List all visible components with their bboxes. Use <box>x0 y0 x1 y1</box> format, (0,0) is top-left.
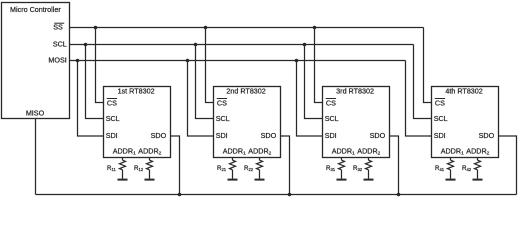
svg-text:SDI: SDI <box>325 131 337 140</box>
IC U2 2nd RT8302 box <box>214 87 281 158</box>
wire resistor R22 to ground <box>259 170 261 179</box>
svg-text:ADDR2: ADDR2 <box>357 147 380 156</box>
svg-text:SDO: SDO <box>151 131 167 140</box>
IC U1 1st RT8302 box <box>104 87 171 158</box>
svg-text:ADDR2: ADDR2 <box>138 147 161 156</box>
junction dot MOSI / SDI U2 <box>186 59 190 63</box>
junction dot SS / CS U1 <box>94 26 98 30</box>
junction dot SDO U3 / MISO bus <box>397 193 401 197</box>
IC U4 4th RT8302 box <box>432 87 499 158</box>
wire SCL bus <box>70 44 414 46</box>
wire SDO U2 to MISO bus <box>281 136 290 195</box>
wire resistor R31 to ground <box>341 170 343 179</box>
svg-text:SDO: SDO <box>370 131 386 140</box>
svg-text:SDO: SDO <box>479 131 495 140</box>
junction dot MOSI / SDI U1 <box>76 59 80 63</box>
svg-text:4th RT8302: 4th RT8302 <box>445 87 482 96</box>
svg-text:R21: R21 <box>217 165 227 172</box>
svg-text:CS: CS <box>107 98 117 107</box>
resistor R11 <box>120 160 126 170</box>
wire SS to CS U2 <box>206 28 214 103</box>
svg-text:MISO: MISO <box>26 109 45 118</box>
wire MOSI bus to SDI U3 <box>297 61 323 137</box>
IC U3 3rd RT8302 box <box>323 87 390 158</box>
wire ADDR2 U3 to resistor R32 <box>368 158 370 161</box>
wire SCL bus to SCL U3 <box>305 45 323 119</box>
junction dot SCL bus U3 <box>303 43 307 47</box>
svg-text:CS: CS <box>435 98 445 107</box>
svg-text:R12: R12 <box>134 165 144 172</box>
wire ADDR2 U2 to resistor R22 <box>259 158 261 161</box>
svg-text:CS: CS <box>326 98 336 107</box>
wire SCL bus to SCL U4 <box>414 45 432 119</box>
wire ADDR2 U4 to resistor R42 <box>477 158 479 161</box>
svg-text:R31: R31 <box>326 165 336 172</box>
wire SS bus <box>70 27 424 29</box>
svg-text:MOSI: MOSI <box>48 56 66 65</box>
svg-text:CS: CS <box>217 98 227 107</box>
junction dot SCL bus U1 <box>84 43 88 47</box>
svg-text:SCL: SCL <box>325 114 339 123</box>
svg-text:ADDR2: ADDR2 <box>466 147 489 156</box>
junction dot MOSI / SDI U3 <box>295 59 299 63</box>
wire resistor R12 to ground <box>149 170 151 179</box>
ground symbol below R21 <box>228 179 238 181</box>
svg-text:ADDR2: ADDR2 <box>248 147 271 156</box>
wire ADDR1 U2 to resistor R21 <box>232 158 234 161</box>
wire SS to CS U4 <box>424 28 432 103</box>
wire resistor R41 to ground <box>450 170 452 179</box>
resistor R21 <box>230 160 236 170</box>
wire SDO U1 to MISO bus <box>171 136 180 195</box>
resistor R31 <box>339 160 345 170</box>
ground symbol below R11 <box>118 179 128 181</box>
wire MOSI bus to SDI U2 <box>188 61 214 137</box>
svg-text:1st RT8302: 1st RT8302 <box>118 87 155 96</box>
wire resistor R21 to ground <box>232 170 234 179</box>
svg-text:SCL: SCL <box>434 114 448 123</box>
resistor R32 <box>366 160 372 170</box>
wire SS to CS U1 <box>96 28 104 103</box>
wire SDO U3 to MISO bus <box>390 136 399 195</box>
svg-text:Micro Controller: Micro Controller <box>10 5 61 14</box>
micro controller U0 box <box>2 3 70 119</box>
svg-text:R11: R11 <box>107 165 116 172</box>
wire ADDR1 U1 to resistor R11 <box>122 158 124 161</box>
svg-text:2nd RT8302: 2nd RT8302 <box>226 87 265 96</box>
wire MISO bottom bus <box>36 194 517 196</box>
resistor R42 <box>475 160 481 170</box>
junction dot SS / CS U2 <box>204 26 208 30</box>
svg-text:SDO: SDO <box>261 131 277 140</box>
svg-text:R42: R42 <box>462 165 472 172</box>
svg-text:ADDR1: ADDR1 <box>223 147 246 156</box>
wire resistor R11 to ground <box>122 170 124 179</box>
resistor R41 <box>448 160 454 170</box>
svg-text:SCL: SCL <box>216 114 230 123</box>
svg-text:ADDR1: ADDR1 <box>441 147 464 156</box>
wire MOSI bus to SDI U1 <box>78 61 104 137</box>
svg-text:ADDR1: ADDR1 <box>113 147 136 156</box>
wire MOSI bus <box>70 60 406 62</box>
svg-text:SDI: SDI <box>434 131 446 140</box>
svg-text:SCL: SCL <box>106 114 120 123</box>
ground symbol below R42 <box>473 179 483 181</box>
ground symbol below R41 <box>446 179 456 181</box>
wire resistor R32 to ground <box>368 170 370 179</box>
svg-text:ADDR1: ADDR1 <box>332 147 355 156</box>
junction dot SDO U1 / MISO bus <box>178 193 182 197</box>
wire MISO vertical from MC <box>35 119 37 195</box>
ground symbol below R32 <box>364 179 374 181</box>
ground symbol below R12 <box>145 179 155 181</box>
svg-text:3rd RT8302: 3rd RT8302 <box>336 87 374 96</box>
wire ADDR2 U1 to resistor R12 <box>149 158 151 161</box>
svg-text:R41: R41 <box>435 165 445 172</box>
wire SCL bus to SCL U1 <box>86 45 104 119</box>
wire ADDR1 U4 to resistor R41 <box>450 158 452 161</box>
wire SS to CS U3 <box>315 28 323 103</box>
wire ADDR1 U3 to resistor R31 <box>341 158 343 161</box>
svg-text:R22: R22 <box>244 165 254 172</box>
junction dot SS / CS U3 <box>313 26 317 30</box>
svg-text:SDI: SDI <box>106 131 118 140</box>
junction dot SDO U2 / MISO bus <box>288 193 292 197</box>
wire MOSI bus to SDI U4 <box>406 61 432 137</box>
wire SCL bus to SCL U2 <box>196 45 214 119</box>
svg-text:R32: R32 <box>353 165 363 172</box>
svg-text:SS: SS <box>53 23 63 32</box>
svg-text:SCL: SCL <box>53 40 67 49</box>
resistor R12 <box>147 160 153 170</box>
resistor R22 <box>257 160 263 170</box>
junction dot SCL bus U2 <box>194 43 198 47</box>
svg-text:SDI: SDI <box>216 131 228 140</box>
ground symbol below R22 <box>255 179 265 181</box>
wire resistor R42 to ground <box>477 170 479 179</box>
wire SDO U4 to MISO bus <box>499 136 517 195</box>
ground symbol below R31 <box>337 179 347 181</box>
